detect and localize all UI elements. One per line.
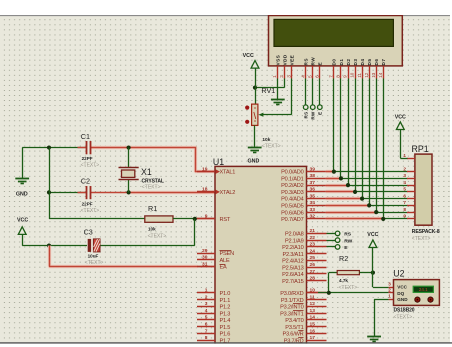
- svg-text:22: 22: [310, 235, 316, 241]
- svg-text:1: 1: [403, 153, 406, 158]
- svg-text:P2.2/A10: P2.2/A10: [282, 245, 304, 251]
- svg-text:25: 25: [310, 255, 316, 261]
- svg-text:GND: GND: [16, 192, 28, 198]
- svg-text:4: 4: [205, 308, 208, 314]
- svg-text:P1.2: P1.2: [220, 305, 231, 311]
- svg-text:RST: RST: [220, 217, 231, 223]
- svg-text:P0.1/AD1: P0.1/AD1: [281, 176, 303, 182]
- svg-text:P3.3/INT1: P3.3/INT1: [280, 311, 303, 317]
- svg-text:17: 17: [310, 335, 316, 341]
- svg-text:EA: EA: [220, 265, 228, 271]
- svg-text:36: 36: [310, 187, 316, 193]
- svg-text:P2.6/A14: P2.6/A14: [282, 272, 304, 278]
- svg-text:8: 8: [205, 335, 208, 341]
- svg-text:1: 1: [272, 75, 277, 78]
- svg-text:18: 18: [202, 187, 208, 193]
- svg-text:24.1: 24.1: [419, 287, 428, 292]
- svg-text:2: 2: [388, 287, 391, 292]
- svg-text:CRYSTAL: CRYSTAL: [142, 178, 164, 184]
- svg-text:P0.0/AD0: P0.0/AD0: [281, 170, 303, 176]
- svg-text:4: 4: [403, 180, 406, 185]
- svg-text:P2.3/A11: P2.3/A11: [283, 252, 304, 258]
- svg-text:9: 9: [403, 214, 406, 219]
- svg-text:<TEXT>: <TEXT>: [81, 208, 100, 214]
- svg-text:P2.4/A12: P2.4/A12: [282, 259, 304, 265]
- svg-text:11: 11: [357, 73, 362, 78]
- svg-text:13: 13: [310, 308, 316, 314]
- svg-text:P1.6: P1.6: [220, 332, 231, 338]
- svg-text:XTAL2: XTAL2: [220, 190, 236, 196]
- svg-text:RESPACK-8: RESPACK-8: [412, 229, 440, 235]
- svg-text:33: 33: [310, 207, 316, 213]
- svg-text:P0.3/AD3: P0.3/AD3: [281, 190, 303, 196]
- svg-text:P3.4/T0: P3.4/T0: [285, 318, 303, 324]
- svg-text:C3: C3: [84, 227, 93, 236]
- svg-text:C1: C1: [81, 132, 90, 141]
- svg-text:RS: RS: [344, 232, 352, 238]
- svg-text:RP1: RP1: [412, 144, 429, 154]
- svg-text:3: 3: [286, 75, 291, 78]
- svg-text:P1.1: P1.1: [220, 298, 231, 304]
- svg-text:39: 39: [310, 166, 316, 172]
- svg-text:14: 14: [310, 315, 316, 321]
- svg-text:VDD: VDD: [282, 54, 287, 65]
- svg-text:7: 7: [329, 75, 334, 78]
- svg-text:P3.5/T1: P3.5/T1: [285, 325, 303, 331]
- svg-text:P2.7/A15: P2.7/A15: [282, 279, 304, 285]
- svg-text:8: 8: [403, 207, 406, 212]
- svg-text:2: 2: [279, 75, 284, 78]
- svg-text:D4: D4: [360, 59, 365, 66]
- svg-text:<TEXT>: <TEXT>: [412, 236, 431, 242]
- svg-text:D6: D6: [374, 59, 379, 66]
- svg-text:5: 5: [205, 315, 208, 321]
- svg-text:9: 9: [343, 75, 348, 78]
- svg-text:VCC: VCC: [397, 285, 407, 290]
- svg-text:RW: RW: [344, 238, 352, 244]
- svg-text:<TEXT>: <TEXT>: [394, 314, 413, 320]
- svg-text:GND: GND: [248, 158, 260, 164]
- svg-text:12: 12: [310, 301, 316, 307]
- svg-text:3: 3: [205, 301, 208, 307]
- svg-text:D1: D1: [339, 59, 344, 66]
- svg-text:RS: RS: [304, 58, 309, 65]
- svg-text:<TEXT>: <TEXT>: [81, 163, 100, 169]
- svg-text:1: 1: [205, 288, 208, 294]
- svg-text:P0.5/AD5: P0.5/AD5: [281, 204, 303, 210]
- svg-text:P0.7/AD7: P0.7/AD7: [281, 217, 303, 223]
- svg-text:2: 2: [205, 294, 208, 300]
- svg-text:P2.5/A13: P2.5/A13: [282, 265, 304, 271]
- svg-text:2: 2: [403, 166, 406, 171]
- svg-text:24: 24: [310, 248, 316, 254]
- svg-text:14: 14: [378, 72, 383, 78]
- svg-text:PSEN: PSEN: [220, 251, 235, 257]
- svg-text:31: 31: [202, 261, 208, 267]
- svg-text:VCC: VCC: [243, 53, 254, 59]
- svg-text:P3.2/INT0: P3.2/INT0: [280, 305, 303, 311]
- svg-text:D2: D2: [346, 59, 351, 66]
- svg-text:U1: U1: [213, 157, 224, 167]
- svg-text:12: 12: [364, 72, 369, 78]
- svg-text:X1: X1: [141, 167, 152, 177]
- svg-text:R1: R1: [148, 204, 157, 213]
- svg-text:ALE: ALE: [220, 258, 230, 264]
- svg-text:GND: GND: [397, 297, 408, 302]
- svg-text:37: 37: [310, 180, 316, 186]
- svg-text:P2.1/A9: P2.1/A9: [285, 238, 304, 244]
- svg-text:5: 5: [403, 187, 406, 192]
- svg-text:P1.3: P1.3: [220, 311, 231, 317]
- svg-text:23: 23: [310, 242, 316, 248]
- svg-text:6: 6: [315, 75, 320, 78]
- svg-text:VSS: VSS: [275, 55, 280, 66]
- svg-text:P3.6/WR: P3.6/WR: [283, 332, 304, 338]
- svg-text:DS18B20: DS18B20: [394, 308, 415, 314]
- svg-text:27: 27: [310, 269, 316, 275]
- svg-text:4: 4: [300, 75, 305, 78]
- svg-text:3: 3: [388, 281, 391, 286]
- svg-text:P0.2/AD2: P0.2/AD2: [281, 183, 303, 189]
- svg-text:21: 21: [310, 228, 316, 234]
- svg-text:22PF: 22PF: [82, 156, 93, 161]
- svg-text:9: 9: [205, 214, 208, 220]
- svg-text:VCC: VCC: [367, 232, 378, 238]
- svg-text:D3: D3: [353, 59, 358, 66]
- svg-text:7: 7: [205, 328, 208, 334]
- svg-text:35: 35: [310, 193, 316, 199]
- svg-text:VCC: VCC: [395, 114, 406, 120]
- svg-text:3: 3: [403, 173, 406, 178]
- svg-text:P3.1/TXD: P3.1/TXD: [281, 298, 304, 304]
- svg-text:10: 10: [350, 72, 355, 78]
- svg-text:28: 28: [310, 276, 316, 282]
- svg-text:E: E: [318, 112, 323, 115]
- svg-text:DQ: DQ: [397, 291, 404, 296]
- svg-text:8: 8: [336, 75, 341, 78]
- svg-text:VCC: VCC: [17, 218, 28, 224]
- svg-text:P0.4/AD4: P0.4/AD4: [281, 197, 303, 203]
- svg-text:P1.5: P1.5: [220, 325, 231, 331]
- svg-text:P3.0/RXD: P3.0/RXD: [280, 291, 303, 297]
- svg-text:U2: U2: [393, 268, 404, 278]
- svg-text:7: 7: [403, 200, 406, 205]
- svg-text:32: 32: [310, 214, 316, 220]
- svg-text:<TEXT>: <TEXT>: [339, 285, 358, 291]
- svg-text:4.7k: 4.7k: [339, 278, 348, 283]
- svg-text:11: 11: [310, 294, 315, 300]
- svg-text:38: 38: [310, 173, 316, 179]
- svg-text:E: E: [318, 62, 323, 66]
- svg-text:10k: 10k: [148, 226, 156, 231]
- svg-text:<TEXT>: <TEXT>: [148, 234, 167, 240]
- svg-text:34: 34: [310, 200, 316, 206]
- svg-text:<TEXT>: <TEXT>: [142, 184, 161, 190]
- svg-text:13: 13: [371, 72, 376, 78]
- svg-text:15: 15: [310, 322, 316, 328]
- svg-text:5: 5: [307, 75, 312, 78]
- svg-text:D7: D7: [381, 59, 386, 66]
- svg-text:P0.6/AD6: P0.6/AD6: [281, 210, 303, 216]
- svg-text:<TEXT>: <TEXT>: [262, 144, 281, 150]
- svg-text:RW: RW: [310, 111, 315, 120]
- svg-text:XTAL1: XTAL1: [220, 170, 236, 176]
- svg-text:VEE: VEE: [289, 55, 294, 66]
- svg-text:C2: C2: [81, 177, 90, 186]
- svg-text:10uF: 10uF: [88, 253, 99, 258]
- svg-text:19: 19: [202, 166, 208, 172]
- svg-text:D5: D5: [367, 59, 372, 66]
- svg-text:16: 16: [310, 328, 316, 334]
- svg-text:6: 6: [205, 322, 208, 328]
- svg-text:D0: D0: [332, 59, 337, 66]
- svg-text:30: 30: [202, 255, 208, 261]
- svg-text:P1.0: P1.0: [220, 291, 231, 297]
- svg-text:1: 1: [388, 294, 391, 299]
- svg-text:6: 6: [403, 193, 406, 198]
- svg-text:R2: R2: [339, 254, 348, 263]
- svg-text:22PF: 22PF: [82, 202, 93, 207]
- svg-text:RW: RW: [311, 57, 316, 66]
- svg-text:10k: 10k: [262, 137, 270, 143]
- svg-text:RS: RS: [303, 112, 308, 119]
- svg-text:P2.0/A8: P2.0/A8: [285, 232, 304, 238]
- svg-text:RV1: RV1: [261, 86, 275, 95]
- svg-text:26: 26: [310, 262, 316, 268]
- svg-text:P1.4: P1.4: [220, 318, 231, 324]
- svg-text:29: 29: [202, 248, 208, 254]
